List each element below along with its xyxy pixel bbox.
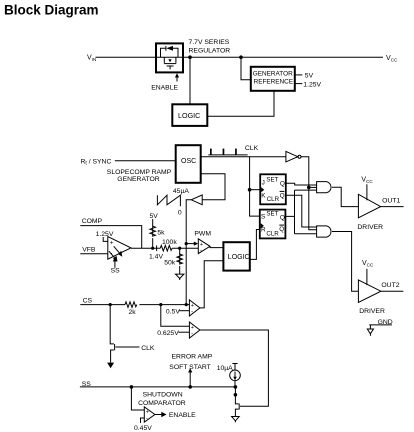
SS clamp arrow 1 xyxy=(114,246,123,256)
wire PWM output to LOGIC2 xyxy=(210,246,223,247)
label SHUTDOWN COMPARATOR xyxy=(138,392,186,407)
label 5V pullup xyxy=(150,213,159,220)
svg-text:Block Diagram: Block Diagram xyxy=(4,3,99,18)
svg-text:SET: SET xyxy=(266,211,278,218)
svg-text:ENABLE: ENABLE xyxy=(169,412,196,419)
svg-text:7.7V SERIES: 7.7V SERIES xyxy=(189,39,230,46)
ground GND symbol xyxy=(367,319,392,336)
wire COMP to error amp output xyxy=(80,226,141,249)
svg-text:K: K xyxy=(261,193,266,200)
wire CS node to 0.625V comparator plus xyxy=(161,305,189,327)
svg-text:5V: 5V xyxy=(305,73,314,80)
svg-text:ERROR AMP: ERROR AMP xyxy=(172,353,213,360)
svg-text:+: + xyxy=(200,242,203,248)
resistor R2 100k xyxy=(160,239,177,251)
ground below 50k xyxy=(176,274,184,280)
clock pulses waveform icon xyxy=(208,149,247,155)
svg-text:OUT2: OUT2 xyxy=(381,282,399,289)
label 0 xyxy=(178,209,182,216)
label DRIVER2 xyxy=(359,308,385,315)
wire OUT1 xyxy=(381,206,404,208)
junction dot 50k node xyxy=(178,247,181,250)
flip-flop U8 SR xyxy=(260,210,286,239)
junction dot SS 10uA xyxy=(234,385,238,389)
wire inverter output down to AND gates xyxy=(301,157,317,230)
label CLK at transistor xyxy=(141,345,155,352)
transistor Q2 CS blanking xyxy=(107,344,139,368)
wire 1.25V output stub xyxy=(295,81,322,88)
svg-text:COMP: COMP xyxy=(82,218,103,225)
wire node B to generator reference input xyxy=(241,57,250,80)
svg-text:5k: 5k xyxy=(157,230,165,237)
wire OSC ramp output loop xyxy=(201,174,225,200)
wire OUT2 xyxy=(381,290,404,292)
svg-text:Q: Q xyxy=(280,181,285,188)
junction dot ramp to PWM plus xyxy=(185,242,188,245)
label PWM xyxy=(194,231,211,238)
regulator box U1 7.7V series regulator xyxy=(156,39,230,72)
sawtooth ramp waveform icon xyxy=(157,195,180,206)
comparator U18 shutdown xyxy=(144,407,155,422)
wire CLK down to flip-flop clocks xyxy=(250,157,260,216)
label DRIVER1 xyxy=(357,224,383,231)
svg-text:REFERENCE: REFERENCE xyxy=(254,79,293,86)
junction dot SS discharge drain xyxy=(234,393,238,397)
svg-text:1.25V: 1.25V xyxy=(96,231,114,238)
svg-text:Q: Q xyxy=(280,193,285,200)
error amp soft start arrow xyxy=(188,368,192,387)
and gate U10 AND2 xyxy=(317,226,331,237)
wire shutdown output ENABLE arrow xyxy=(155,412,196,419)
wire LOGIC2 to FF2 R input xyxy=(250,230,260,260)
logic box U3 LOGIC1 xyxy=(172,104,207,126)
svg-text:-: - xyxy=(146,416,148,422)
svg-text:CLK: CLK xyxy=(245,145,259,152)
wire Rt/SYNC to OSC xyxy=(115,160,176,162)
wire node A down to LOGIC1 xyxy=(189,57,191,103)
junction dot CLKbar to AND1 xyxy=(307,186,311,190)
label 10uA xyxy=(217,365,233,372)
label ERROR AMP SOFT START xyxy=(169,353,212,371)
wire 0.625V comparator output to SS discharge gate xyxy=(200,330,269,406)
junction dot 5k output node xyxy=(151,247,154,250)
svg-text:CLK: CLK xyxy=(141,345,155,352)
junction dot B on rail xyxy=(239,55,243,59)
junction dot SS shutdown tap xyxy=(130,385,134,389)
wire ramp tap arrow into PWM plus input xyxy=(186,242,198,246)
junction dot A on rail xyxy=(188,55,192,59)
svg-text:LOGIC: LOGIC xyxy=(178,111,200,120)
junction dot CS 0.625V tap xyxy=(159,303,162,306)
label OUT1 xyxy=(382,197,400,204)
comparator U14 PWM xyxy=(198,239,210,255)
wire SS tap to shutdown comparator xyxy=(131,387,144,410)
diode D1 inside regulator xyxy=(161,46,179,57)
node SS xyxy=(82,381,92,388)
svg-text:J: J xyxy=(262,180,265,187)
ground below Q3 xyxy=(232,417,240,423)
comparator U17 restart 0.625V xyxy=(189,322,200,338)
wire CLK tap to FF1 clock xyxy=(250,189,260,191)
inverter U6 pointing left xyxy=(191,195,202,205)
svg-text:OUT1: OUT1 xyxy=(382,197,400,204)
label slopecomp ramp generator xyxy=(107,169,172,183)
svg-text:-: - xyxy=(191,332,193,338)
junction dot CLK to FF1 clock xyxy=(248,188,252,192)
node Rt/SYNC xyxy=(81,158,112,166)
svg-text:Q: Q xyxy=(280,215,285,222)
comparator U16 current limit 0.5V xyxy=(189,300,200,316)
svg-text:0.625V: 0.625V xyxy=(157,330,179,337)
svg-text:R: R xyxy=(261,227,266,234)
wire CS tap down to clamp transistor xyxy=(110,305,114,344)
svg-text:CLR: CLR xyxy=(266,230,279,237)
driver U11 OUT1 xyxy=(358,194,380,218)
svg-text:S: S xyxy=(261,214,265,221)
label 45uA xyxy=(173,188,189,195)
wire FF1 Qbar down to AND2 top input xyxy=(286,195,317,227)
junction dot CS ramp column xyxy=(185,303,188,306)
svg-text:0: 0 xyxy=(178,209,182,216)
wire 5V output stub xyxy=(295,73,314,80)
op-amp U13 error amp xyxy=(108,237,131,260)
SS input arrow into error amp xyxy=(111,257,121,274)
label CLK xyxy=(245,145,259,152)
wire SS line xyxy=(80,386,236,388)
wire 1.25V to plus input xyxy=(103,237,107,241)
svg-text:+: + xyxy=(191,303,194,309)
svg-text:-: - xyxy=(191,309,193,315)
svg-text:GENERATOR: GENERATOR xyxy=(253,70,293,77)
node VCC driver2 xyxy=(362,260,374,285)
wire CLKbar tap to AND1 middle input xyxy=(309,186,317,188)
pass transistor Q1 inside regulator xyxy=(164,57,176,69)
ENABLE arrow into regulator xyxy=(151,73,179,91)
svg-text:VFB: VFB xyxy=(82,247,96,254)
svg-text:10µA: 10µA xyxy=(217,365,233,372)
inverter U5 on CLK xyxy=(286,151,301,162)
junction dot SS arrow xyxy=(188,385,192,389)
wire 0.625V to comparator minus xyxy=(178,331,189,333)
svg-text:5V: 5V xyxy=(150,213,159,220)
svg-text:1.25V: 1.25V xyxy=(303,81,321,88)
wire SS down to discharge transistor xyxy=(235,387,238,404)
node COMP xyxy=(82,218,103,225)
wire ramp to PWM and CS column xyxy=(186,200,191,305)
wire AND1 output to driver1 xyxy=(332,187,358,206)
label 1.4V xyxy=(149,253,163,260)
svg-text:DRIVER: DRIVER xyxy=(357,224,383,231)
svg-text:PWM: PWM xyxy=(194,231,211,238)
svg-text:SLOPECOMP RAMP: SLOPECOMP RAMP xyxy=(107,169,172,176)
svg-text:SHUTDOWN: SHUTDOWN xyxy=(143,392,183,399)
resistor R1 5k xyxy=(150,219,165,248)
svg-text:Rt / SYNC: Rt / SYNC xyxy=(81,158,112,166)
oscillator box U4 OSC xyxy=(176,145,201,183)
svg-text:+: + xyxy=(110,240,114,247)
svg-text:Q: Q xyxy=(279,226,284,233)
svg-text:0.5V: 0.5V xyxy=(166,308,180,315)
wire 0.5V to comparator minus xyxy=(179,310,189,312)
SS clamp arrow 2 xyxy=(109,251,118,261)
wire AND2 output to driver2 xyxy=(332,232,358,292)
svg-text:+: + xyxy=(191,325,194,331)
and gate U9 AND1 xyxy=(317,182,331,193)
title xyxy=(4,3,99,18)
node VCC driver1 xyxy=(361,177,373,201)
logic box U15 LOGIC2 xyxy=(223,242,249,270)
1.4V tick mark xyxy=(156,245,158,251)
svg-text:SET: SET xyxy=(266,177,278,184)
svg-text:CLR: CLR xyxy=(267,196,280,203)
resistor R4 2k xyxy=(125,302,137,316)
svg-text:CS: CS xyxy=(83,297,93,304)
label 1.25V error amp ref xyxy=(96,231,114,238)
svg-text:OSC: OSC xyxy=(181,158,196,165)
label OUT2 xyxy=(381,282,399,289)
wire 0.45V to minus input xyxy=(141,418,145,423)
svg-text:0.45V: 0.45V xyxy=(134,425,152,432)
wire FF2 Q to both AND bottom inputs xyxy=(286,190,317,234)
label 0.45V xyxy=(134,425,152,432)
svg-text:50k: 50k xyxy=(164,259,176,266)
node VCC xyxy=(386,55,398,63)
generator reference box U2 xyxy=(251,67,295,91)
node VIN xyxy=(87,55,96,63)
wire error amp output to PWM minus xyxy=(131,247,198,249)
label 0.5V xyxy=(166,308,180,315)
driver U12 OUT2 xyxy=(358,280,381,303)
wire generator reference bottom to LOGIC1 xyxy=(208,91,274,117)
svg-text:1.4V: 1.4V xyxy=(149,253,163,260)
svg-text:GENERATOR: GENERATOR xyxy=(117,176,160,183)
wire FF1 Q to AND1 top input xyxy=(286,183,317,185)
svg-text:100k: 100k xyxy=(162,239,177,246)
current source I1 10uA xyxy=(230,364,241,387)
svg-text:ENABLE: ENABLE xyxy=(151,85,178,92)
svg-text:REGULATOR: REGULATOR xyxy=(189,48,231,55)
wire CLK line from OSC xyxy=(201,156,286,158)
wire VFB to minus input xyxy=(80,253,107,255)
wire VIN rail to VCC xyxy=(96,56,384,58)
svg-text:45µA: 45µA xyxy=(173,188,189,195)
wire 0.5V comparator output to LOGIC2 xyxy=(200,261,224,308)
junction dot CS blanking tap xyxy=(109,303,112,306)
node CS xyxy=(83,297,93,304)
svg-text:LOGIC: LOGIC xyxy=(228,254,250,261)
svg-text:+: + xyxy=(146,410,149,416)
svg-text:COMPARATOR: COMPARATOR xyxy=(138,400,186,407)
svg-text:2k: 2k xyxy=(129,309,137,316)
transistor Q3 SS discharge xyxy=(235,404,239,417)
wire CS line xyxy=(80,304,189,306)
flip-flop U7 JK xyxy=(260,174,286,204)
svg-text:DRIVER: DRIVER xyxy=(359,308,385,315)
label 0.625V xyxy=(157,330,179,337)
node VFB xyxy=(82,247,96,254)
svg-text:-: - xyxy=(200,248,202,254)
svg-text:SS: SS xyxy=(111,267,121,274)
resistor R3 50k xyxy=(164,248,182,274)
